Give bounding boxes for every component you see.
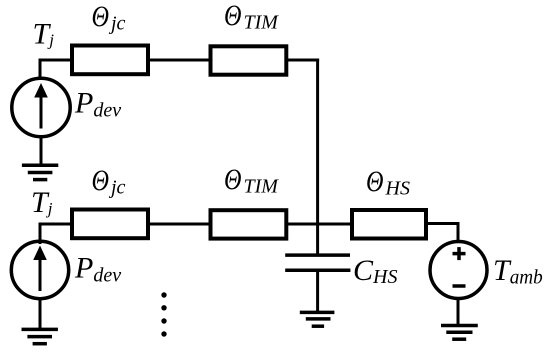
wire R2 to heatsink node: [286, 59, 319, 62]
plus sign inside V1: [453, 247, 466, 260]
wire heatsink vertical bus: [316, 59, 319, 256]
wire V1 to ground: [457, 297, 460, 327]
wire R4 through heatsink node to R5: [286, 223, 352, 226]
label ΘHS for R5: [366, 165, 410, 200]
label Pdev for I2: [74, 252, 121, 287]
wire I1 to ground: [40, 136, 43, 167]
svg-text:Pdev: Pdev: [74, 252, 121, 287]
label Θjc for R1: [92, 0, 126, 35]
svg-text:CHS: CHS: [353, 254, 397, 288]
label Θjc for R3: [92, 164, 126, 199]
label ΘTIM for R2: [224, 0, 279, 34]
ground G2 below I2: [22, 329, 58, 343]
svg-text:ΘTIM: ΘTIM: [224, 0, 279, 34]
wire node Tj1 to resistor R1: [39, 59, 73, 62]
ground G4 below V1: [441, 326, 478, 340]
svg-text:Θjc: Θjc: [92, 0, 126, 35]
resistor R2 thermal resistance TIM, top row: [211, 46, 287, 74]
label Pdev for I1: [74, 87, 121, 122]
wire R1 to R2: [148, 59, 212, 62]
resistor R3 thermal resistance junction-case, bottom row: [72, 210, 148, 239]
current source I1 Pdev top row: [12, 78, 70, 136]
svg-text:Tamb: Tamb: [493, 254, 543, 289]
voltage source V1 ambient temperature: [430, 242, 487, 299]
svg-text:Θjc: Θjc: [92, 164, 126, 199]
wire C1 bottom plate to ground: [316, 272, 319, 314]
ellipsis dots indicating repeated devices: [161, 292, 166, 336]
wire R5 to voltage source V1: [426, 222, 460, 225]
current source I2 Pdev bottom row: [11, 241, 68, 298]
wire R3 to R4: [148, 223, 212, 226]
node Tj (bottom device junction label): [31, 186, 53, 219]
svg-text:ΘHS: ΘHS: [366, 165, 410, 200]
label CHS for C1: [353, 254, 397, 288]
svg-text:ΘTIM: ΘTIM: [224, 163, 279, 198]
arrow of current source I1: [34, 83, 48, 129]
resistor R5 thermal resistance heatsink: [352, 210, 426, 239]
svg-text:Tj: Tj: [31, 186, 53, 219]
label Tamb for V1: [493, 254, 543, 289]
svg-text:Tj: Tj: [33, 18, 55, 51]
svg-text:Pdev: Pdev: [74, 87, 121, 122]
resistor R1 thermal resistance junction-case, top row: [72, 46, 148, 75]
resistor R4 thermal resistance TIM, bottom row: [211, 210, 287, 238]
ground G1 below I1: [22, 165, 58, 179]
minus sign inside V1: [453, 284, 466, 288]
arrow of current source I2: [33, 246, 47, 292]
wire corner down to V1 top: [457, 222, 460, 243]
capacitor C1 heatsink thermal capacitance: [285, 255, 350, 270]
ground G3 below C1: [300, 312, 335, 326]
wire node Tj1 down to current source I1: [39, 59, 42, 81]
label ΘTIM for R4: [224, 163, 279, 198]
wire node Tj2 down to current source I2: [39, 223, 42, 245]
wire I2 to ground: [39, 299, 42, 331]
wire node Tj2 to resistor R3: [39, 223, 73, 226]
node Tj (top device junction label): [33, 18, 55, 51]
